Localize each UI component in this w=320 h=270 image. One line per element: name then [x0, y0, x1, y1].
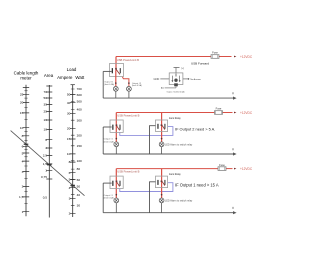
wire: +12V rail row 1	[116, 56, 211, 58]
wire: red drop into K2	[161, 113, 163, 142]
svg-text:80: 80	[77, 167, 81, 171]
cable length tick labels	[19, 93, 24, 214]
svg-text:USB PowerLimit B: USB PowerLimit B	[117, 113, 139, 117]
wire: U1 coil to left rail	[103, 70, 112, 72]
svg-text:15: 15	[20, 111, 24, 115]
ground rail row2 arrowhead	[233, 152, 237, 155]
svg-text:Load: Load	[67, 67, 77, 72]
wire: J1 data stub right	[183, 78, 188, 80]
ground rail row2 terminal tick	[232, 148, 234, 150]
relay K2 coil bar	[157, 124, 158, 129]
svg-text:600: 600	[77, 93, 82, 97]
indicator lamp H2b	[159, 142, 164, 147]
indicator lamp H2a	[114, 142, 119, 147]
fuse F3	[218, 167, 226, 171]
svg-text:4: 4	[69, 186, 71, 190]
relay U3 pivot	[116, 181, 118, 183]
wire: U2 coil to left rail	[103, 126, 112, 128]
svg-text:35: 35	[44, 103, 48, 107]
wire: left ground drop row 3	[102, 183, 104, 213]
svg-text:6: 6	[22, 145, 24, 149]
junction dot H2 feed	[128, 82, 130, 84]
svg-text:USB PowerLimit B: USB PowerLimit B	[117, 58, 139, 62]
junction dot H2a feed	[116, 138, 118, 140]
example reading diagonal line	[11, 131, 85, 196]
load watt ticks	[71, 89, 75, 205]
svg-text:IF Output 1 need > 15 A: IF Output 1 need > 15 A	[175, 182, 219, 187]
wire: left ground drop row 1	[102, 71, 104, 98]
wire: red drop into U1	[115, 57, 117, 71]
svg-text:(+): (+)	[181, 67, 184, 70]
svg-text:50: 50	[77, 185, 81, 189]
svg-text:20: 20	[20, 101, 24, 105]
svg-text:50: 50	[67, 93, 71, 97]
indicator lamp H2	[126, 86, 131, 91]
wire: U3 coil to left rail	[103, 182, 112, 184]
svg-text:2: 2	[69, 211, 71, 215]
wire: blue control from U3 to relay K3	[120, 183, 173, 192]
svg-text:2,5: 2,5	[43, 154, 48, 158]
svg-text:8: 8	[69, 160, 71, 164]
relay U1 pivot	[115, 68, 117, 70]
svg-text:40: 40	[77, 193, 81, 197]
svg-text:4: 4	[22, 159, 24, 163]
relay K2 contact bar	[164, 124, 165, 129]
svg-text:40: 40	[67, 101, 71, 105]
ground rail row3	[103, 212, 233, 214]
svg-text:USB Forward: USB Forward	[191, 61, 209, 65]
scale: area axis line	[48, 85, 50, 218]
wire: red drop into K3	[161, 169, 163, 198]
svg-text:20: 20	[67, 126, 71, 130]
relay box U1 outline	[110, 64, 124, 77]
svg-text:+12VDC: +12VDC	[240, 167, 253, 171]
terminal J1 data	[188, 78, 190, 80]
svg-text:200: 200	[77, 133, 82, 137]
svg-text:60: 60	[77, 178, 81, 182]
svg-text:1,5: 1,5	[19, 195, 24, 199]
cable length minor ticks	[24, 91, 27, 204]
svg-text:500: 500	[77, 100, 82, 104]
relay U1 switch blade	[116, 69, 120, 74]
area tick labels	[41, 90, 47, 179]
svg-text:10: 10	[67, 152, 71, 156]
load top tick	[71, 84, 75, 86]
ground rail row3 arrowhead	[233, 211, 237, 214]
relay U3 coil bar	[112, 181, 113, 186]
wire: K3 coil return	[150, 182, 156, 213]
svg-text:300: 300	[77, 118, 82, 122]
svg-text:3: 3	[22, 170, 24, 174]
relay U2 contact bar	[119, 125, 120, 130]
load ampere ticks	[70, 95, 76, 214]
svg-text:10: 10	[20, 126, 24, 130]
svg-text:+12VDC: +12VDC	[240, 55, 253, 59]
svg-text:+12VDC: +12VDC	[240, 111, 253, 115]
relay U3 switch blade	[117, 182, 120, 187]
svg-text:GND: GND	[154, 77, 160, 81]
svg-text:6: 6	[69, 171, 71, 175]
wire: J1 GND stub	[160, 78, 169, 80]
relay U1 coil bar	[112, 68, 113, 73]
svg-text:Fuse: Fuse	[219, 163, 225, 167]
svg-text:4: 4	[45, 146, 47, 150]
wire: lamp H2a to ground	[115, 147, 117, 154]
svg-text:700: 700	[77, 87, 82, 91]
fuse F2	[215, 111, 223, 115]
supply arrow row3	[234, 168, 236, 170]
svg-text:0,5: 0,5	[43, 195, 48, 199]
scale: cable length axis line	[25, 85, 27, 217]
svg-text:Fuse: Fuse	[216, 107, 222, 111]
svg-text:5: 5	[69, 178, 71, 182]
svg-text:6: 6	[45, 138, 47, 142]
svg-text:Output #1: Output #1	[104, 138, 114, 141]
relay K3 outline	[156, 176, 168, 188]
svg-text:(limit 0.5A): (limit 0.5A)	[104, 141, 114, 144]
svg-text:Area: Area	[44, 73, 54, 78]
svg-text:No Answer: No Answer	[190, 78, 201, 81]
fuse F1	[211, 55, 219, 59]
svg-text:1: 1	[45, 168, 47, 172]
node: diagonal crossing cable scale	[24, 143, 29, 145]
svg-text:LED Alarm to switch relay: LED Alarm to switch relay	[165, 144, 193, 147]
connector J1 shield lug	[174, 83, 178, 86]
svg-text:70: 70	[44, 90, 48, 94]
wire: red through U1 to lamp H1	[115, 71, 117, 87]
svg-text:LED Alarm to switch relay: LED Alarm to switch relay	[165, 200, 193, 203]
node: diagonal crossing area scale	[47, 164, 52, 166]
relay K3 coil bar	[157, 180, 158, 185]
svg-text:(limit 0.5A): (limit 0.5A)	[132, 84, 142, 87]
svg-text:Fuse: Fuse	[212, 51, 218, 55]
svg-text:100: 100	[77, 159, 82, 163]
wire: +12V rail row 3	[116, 168, 218, 170]
junction dot H3a feed	[116, 194, 118, 196]
svg-text:15: 15	[67, 137, 71, 141]
wire: left ground drop row 2	[102, 127, 104, 154]
wire: J1 V+ stub	[175, 68, 177, 73]
relay U3 contact bar	[119, 181, 120, 186]
junction dot H3b feed	[161, 194, 163, 196]
svg-text:8: 8	[22, 134, 24, 138]
svg-text:Ampere: Ampere	[57, 75, 73, 80]
svg-text:Output #1: Output #1	[104, 80, 114, 83]
wire: lamp H2 to ground	[128, 91, 130, 98]
wire: J1 shield down	[175, 86, 177, 88]
area ticks	[46, 86, 52, 179]
connector J1 pin 1	[172, 76, 173, 82]
svg-text:Output #1: Output #1	[104, 194, 114, 197]
wire: K2 coil return	[150, 126, 156, 154]
svg-text:5: 5	[22, 151, 24, 155]
relay K3 contact bar	[164, 180, 165, 185]
svg-text:USB PowerLimit B: USB PowerLimit B	[117, 169, 139, 173]
node: diagonal crossing load scale	[70, 184, 75, 186]
wire: lamp H1 to ground	[115, 91, 117, 98]
ground rail row3 terminal tick	[232, 207, 234, 209]
svg-text:50: 50	[44, 96, 48, 100]
connector J1 top mark	[175, 74, 177, 77]
svg-text:400: 400	[77, 108, 82, 112]
wire: red switched output to lamp H2	[122, 77, 128, 86]
svg-text:25: 25	[20, 93, 24, 97]
connector J1 center contact	[174, 79, 177, 82]
terminal J1 V+	[174, 67, 180, 69]
relay U2 switch blade	[117, 126, 120, 131]
svg-text:30: 30	[77, 203, 81, 207]
relay K2 outline	[156, 120, 168, 132]
svg-text:meter: meter	[20, 75, 32, 80]
ground rail row1 terminal tick	[232, 92, 234, 94]
svg-text:Output #2 (limit 0.5A): Output #2 (limit 0.5A)	[167, 91, 185, 94]
svg-text:(limit 0.5A): (limit 0.5A)	[104, 197, 114, 200]
supply arrow row2	[234, 112, 236, 114]
svg-text:0,75: 0,75	[41, 175, 47, 179]
indicator lamp H3a	[114, 198, 119, 203]
load watt labels	[77, 87, 82, 207]
relay K3 switch blade	[162, 181, 165, 186]
wire: J1 aux left	[165, 87, 176, 89]
svg-text:(limit 0.5A): (limit 0.5A)	[104, 83, 114, 86]
svg-text:16: 16	[44, 118, 48, 122]
scale: load axis line	[72, 85, 74, 217]
indicator lamp H3b	[159, 198, 164, 203]
wire: red drop into U3	[115, 169, 117, 198]
svg-text:Watt: Watt	[75, 75, 85, 80]
ground rail row2	[103, 153, 233, 155]
wire: blue control from U2 to relay K2	[120, 127, 173, 136]
svg-text:2: 2	[22, 185, 24, 189]
supply arrow row1	[234, 56, 236, 58]
wire: +12V rail row 2	[116, 112, 214, 114]
relay box U2 outline	[110, 120, 123, 132]
relay K2 switch blade	[162, 125, 165, 130]
indicator lamp H1	[113, 86, 118, 91]
svg-text:IF Output 2 need > 5 A.: IF Output 2 need > 5 A.	[175, 126, 215, 131]
cable length major ticks	[23, 88, 29, 212]
wire: red drop into U2	[115, 113, 117, 142]
svg-text:5V: 5V	[161, 87, 164, 90]
load ampere labels	[67, 93, 71, 216]
wire: lamp H2b to ground	[161, 147, 163, 154]
junction dot H1 feed	[115, 82, 117, 84]
wire: lamp H3b to ground	[161, 203, 163, 213]
ground rail row1 arrowhead	[233, 97, 237, 100]
relay K3 pivot	[161, 181, 163, 183]
wire: lamp H3a to ground	[115, 203, 117, 213]
relay U2 coil bar	[112, 125, 113, 130]
junction dot H2b feed	[161, 138, 163, 140]
ground rail row1	[103, 97, 233, 99]
relay box U3 outline	[110, 176, 123, 188]
svg-text:Euro Relay: Euro Relay	[169, 117, 181, 120]
svg-text:30: 30	[67, 111, 71, 115]
svg-text:25: 25	[44, 110, 48, 114]
relay U2 pivot	[116, 124, 118, 126]
svg-text:10: 10	[44, 128, 48, 132]
relay U1 contact bar	[120, 68, 121, 73]
svg-text:150: 150	[77, 144, 82, 148]
connector J1 USB Forward outline	[169, 73, 183, 85]
connector J1 pin 2	[179, 76, 180, 82]
svg-text:Euro Relay: Euro Relay	[169, 173, 181, 176]
relay K2 pivot	[161, 124, 163, 126]
svg-text:1: 1	[22, 210, 24, 214]
svg-text:3: 3	[69, 196, 71, 200]
